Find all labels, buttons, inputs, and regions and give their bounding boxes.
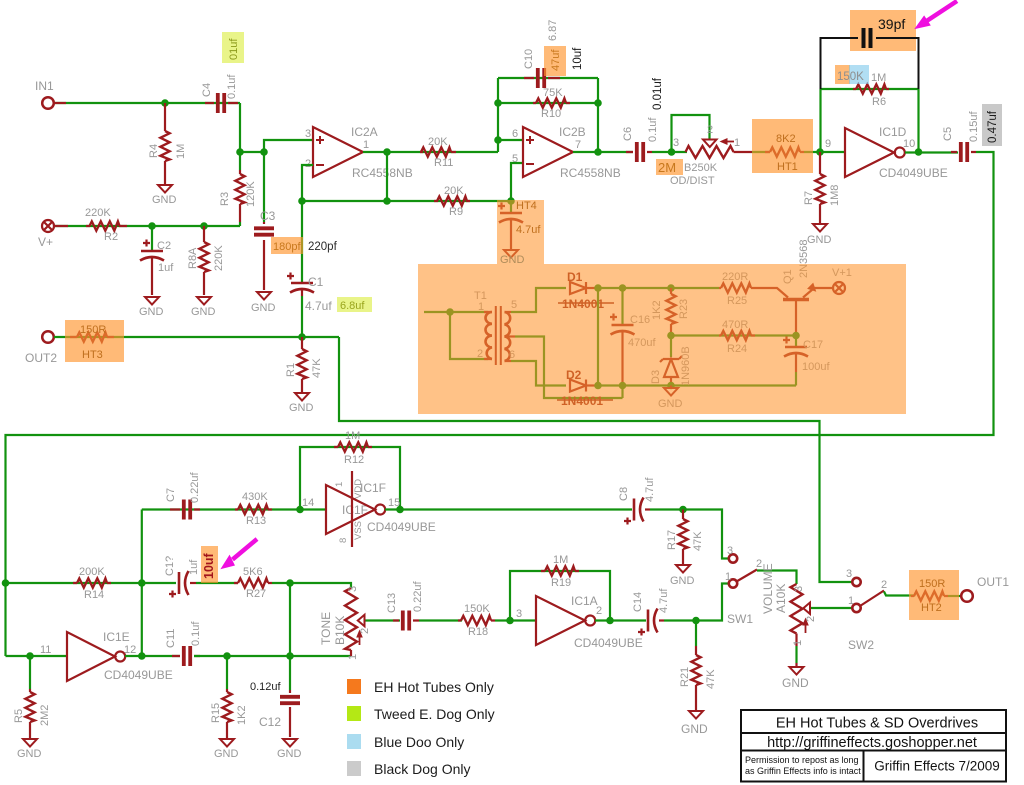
node junction D1 cathode	[594, 284, 602, 292]
svg-text:4.7uf: 4.7uf	[305, 299, 332, 313]
wire IC2A minus input	[302, 165, 313, 282]
transformer T1	[484, 306, 515, 365]
svg-text:150K: 150K	[464, 603, 490, 615]
wire pin6 stub	[498, 139, 523, 141]
svg-text:10: 10	[903, 138, 915, 150]
svg-text:GND: GND	[152, 194, 177, 206]
node junction C1x left	[138, 579, 146, 587]
svg-text:8: 8	[338, 538, 349, 543]
wire down to C11 rail	[289, 583, 291, 656]
svg-text:5K6: 5K6	[243, 566, 263, 578]
svg-text:R21: R21	[679, 667, 691, 687]
svg-text:8K2: 8K2	[776, 133, 796, 145]
wire zero rail	[598, 384, 796, 386]
resistor R24 470R	[719, 334, 755, 336]
svg-text:CD4049UBE: CD4049UBE	[367, 520, 436, 534]
node junction pin3	[260, 148, 268, 156]
wire IC2A output	[363, 151, 498, 153]
highlight box 39pf	[850, 10, 916, 51]
svg-text:HT2: HT2	[921, 602, 942, 614]
svg-text:1: 1	[725, 571, 731, 583]
svg-text:C6: C6	[622, 127, 634, 141]
svg-text:R27: R27	[246, 588, 266, 600]
svg-text:11: 11	[40, 644, 51, 656]
resistor R9 20K	[434, 200, 470, 202]
capacitor C6 0.1uf	[626, 151, 652, 153]
svg-text:HT1: HT1	[777, 161, 798, 173]
ground below R17	[676, 565, 690, 573]
svg-text:2: 2	[805, 616, 817, 622]
inverter IC1E	[67, 632, 115, 681]
capacitor C1 4.7uf	[301, 282, 303, 283]
svg-text:150K: 150K	[837, 71, 864, 83]
svg-text:2M2: 2M2	[39, 705, 51, 726]
resistor R25 220R	[719, 287, 755, 289]
svg-text:1K2: 1K2	[236, 705, 248, 725]
svg-text:as Griffin Effects info is int: as Griffin Effects info is intact	[745, 766, 861, 776]
node junction IC2A out	[383, 148, 391, 156]
svg-text:EH Hot Tubes & SD Overdrives: EH Hot Tubes & SD Overdrives	[776, 716, 978, 732]
svg-text:1M: 1M	[175, 144, 187, 159]
svg-text:430K: 430K	[242, 491, 268, 503]
svg-text:0.01uf: 0.01uf	[652, 77, 664, 110]
svg-text:R6: R6	[872, 96, 886, 108]
svg-text:1: 1	[363, 139, 369, 151]
svg-text:OUT2: OUT2	[25, 351, 57, 365]
svg-text:R5: R5	[13, 709, 25, 723]
svg-text:R17: R17	[666, 530, 678, 550]
wire IC1D out	[905, 151, 958, 153]
legend swatch Blue Doo	[347, 734, 361, 749]
wire R12 loop	[300, 447, 400, 510]
svg-text:CD4049UBE: CD4049UBE	[574, 636, 643, 650]
svg-text:7: 7	[575, 139, 581, 151]
svg-text:6: 6	[512, 128, 518, 140]
svg-text:http://griffineffects.goshoppe: http://griffineffects.goshopper.net	[767, 735, 977, 751]
svg-text:GND: GND	[251, 302, 276, 314]
resistor R3 120K	[239, 170, 241, 222]
node junction R14 left	[2, 579, 10, 587]
svg-text:HT3: HT3	[82, 349, 103, 361]
wire R14 rail	[6, 582, 142, 584]
wire IC1E out	[125, 655, 180, 657]
wire HT2 to OUT1	[948, 595, 961, 597]
node junction R21 top	[692, 617, 700, 625]
node junction fb left	[298, 197, 306, 205]
svg-text:220K: 220K	[213, 245, 225, 271]
svg-text:R2: R2	[104, 231, 118, 243]
svg-text:C7: C7	[165, 488, 177, 502]
wire C17 to zero rail	[795, 372, 797, 386]
node junction R23 bottom	[667, 332, 675, 340]
node junction R1 top	[298, 333, 306, 341]
svg-text:150R: 150R	[919, 578, 945, 590]
wire IC1F out to C8	[385, 508, 632, 510]
wire C6 to pot	[652, 151, 687, 153]
svg-text:0.1uf: 0.1uf	[226, 74, 238, 99]
op-amp IC2B	[523, 127, 573, 177]
svg-text:9: 9	[825, 138, 831, 150]
svg-text:C4: C4	[201, 83, 213, 97]
node junction IC1D out	[915, 148, 923, 156]
resistor R12 1M	[334, 446, 372, 448]
resistor R8A 220K	[203, 226, 205, 295]
svg-text:C8: C8	[618, 487, 630, 501]
svg-text:10uf: 10uf	[572, 47, 584, 70]
svg-text:1M: 1M	[871, 72, 886, 84]
zener diode D3	[670, 336, 672, 358]
svg-text:47uf: 47uf	[550, 49, 562, 71]
capacitor C4 0.1uf	[205, 102, 238, 104]
node junction D2 cathode	[594, 382, 602, 390]
wire right side of fb loop	[597, 78, 599, 152]
svg-text:R11: R11	[434, 157, 453, 169]
capacitor C11 0.1uf	[172, 655, 200, 657]
ground below R4	[158, 185, 172, 193]
svg-text:1M: 1M	[553, 554, 568, 566]
wire R10	[498, 102, 598, 104]
capacitor C7 0.22uf	[170, 508, 200, 510]
svg-text:3: 3	[793, 586, 805, 592]
svg-text:VSS: VSS	[353, 521, 364, 540]
svg-text:1M: 1M	[345, 430, 360, 442]
ground below R5	[23, 739, 37, 747]
wire R9 to pin5	[511, 163, 523, 201]
wire to R27	[196, 582, 238, 584]
svg-text:180pf: 180pf	[273, 241, 301, 253]
legend swatch Tweed E Dog	[347, 706, 361, 721]
svg-text:C12: C12	[259, 715, 281, 729]
highlight box 150R HT2	[909, 570, 959, 620]
svg-text:C1: C1	[308, 275, 324, 289]
svg-text:R3: R3	[219, 192, 231, 206]
svg-text:IC1F: IC1F	[360, 481, 386, 495]
node junction IN1/R4	[161, 99, 169, 107]
wire C16 to mid tap line	[621, 386, 623, 399]
svg-text:GND: GND	[139, 306, 164, 318]
node junction C16 top	[619, 284, 627, 292]
ground below C3	[257, 292, 271, 300]
op-amp IC2A	[313, 127, 363, 177]
svg-text:GND: GND	[807, 234, 832, 246]
node junction C16 bottom	[619, 382, 627, 390]
wire C1x rail	[142, 582, 176, 584]
svg-text:3: 3	[846, 568, 852, 580]
wire D1 to D2 vertical	[597, 288, 599, 386]
title block	[741, 710, 1006, 782]
ground below R7	[813, 224, 827, 232]
node junction R27 right	[286, 579, 294, 587]
svg-text:220K: 220K	[85, 207, 111, 219]
capacitor 39pf black	[821, 28, 919, 89]
highlight box 150R HT3	[65, 320, 124, 362]
resistor R18 150K	[458, 619, 495, 621]
resistor R23 1K2	[670, 288, 672, 333]
wire feedback down	[386, 152, 388, 201]
highlight box 01uf yellow	[222, 32, 244, 63]
highlight box 150K blue part	[849, 65, 869, 84]
capacitor C10 47uf	[524, 77, 560, 79]
svg-text:OUT1: OUT1	[977, 575, 1009, 589]
legend swatch EH Hot Tubes	[347, 679, 361, 694]
svg-text:5: 5	[512, 153, 518, 165]
resistor R1 47K	[301, 337, 303, 392]
capacitor C8 4.7uf	[634, 498, 644, 522]
capacitor C3 220pf	[263, 222, 265, 290]
highlight box 10uf	[201, 546, 218, 583]
terminal IN1	[42, 97, 54, 109]
capacitor C16 470uf	[621, 288, 623, 324]
svg-text:10uf: 10uf	[202, 552, 216, 579]
wire R19 loop	[510, 571, 610, 621]
wire B+ rail	[598, 287, 719, 289]
inverter IC1A	[536, 596, 585, 645]
wire SW1 pin2 to VOLUME	[757, 571, 797, 585]
svg-text:C13: C13	[386, 593, 398, 613]
ground below R21	[689, 711, 703, 719]
wire SW2 pin2 to OUT1	[884, 592, 915, 596]
wire R3 bottom to V+ rail	[239, 222, 241, 226]
svg-text:C11: C11	[165, 629, 177, 648]
svg-text:GND: GND	[214, 748, 239, 760]
wire R11 up to IC2B network	[497, 78, 499, 152]
node junction pin3 IC1A	[506, 617, 514, 625]
svg-text:6.8uf: 6.8uf	[340, 300, 365, 312]
svg-text:GND: GND	[670, 575, 695, 587]
wire OUT2 to SW2 net	[339, 337, 852, 582]
wire C14 to SW1 pin1	[664, 584, 729, 621]
wire T1 primary stub	[424, 311, 488, 313]
svg-text:3: 3	[305, 128, 311, 140]
svg-text:C5: C5	[942, 127, 954, 141]
highlight box 180pf	[271, 237, 303, 254]
node junction R10 right	[594, 99, 602, 107]
resistor R11 20K	[420, 151, 456, 153]
resistor R27 5K6	[234, 582, 272, 584]
resistor R17 47K	[682, 510, 684, 565]
svg-text:A10K: A10K	[774, 584, 788, 613]
svg-text:GND: GND	[681, 722, 708, 736]
svg-text:R14: R14	[84, 589, 104, 601]
wire secondary top to D1	[511, 288, 566, 312]
svg-text:C2: C2	[157, 240, 171, 252]
node junction IC1D in	[816, 148, 824, 156]
svg-text:R8A: R8A	[187, 247, 199, 269]
ground below D3	[670, 386, 672, 389]
svg-text:4.7uf: 4.7uf	[644, 477, 656, 502]
resistor R19 1M	[541, 570, 579, 572]
svg-text:TONE: TONE	[319, 612, 333, 645]
wire feedback rail y201	[302, 200, 511, 202]
wire V+ rail	[55, 225, 240, 227]
svg-text:1: 1	[347, 654, 359, 660]
svg-text:V+: V+	[38, 235, 53, 249]
wire C10 top	[498, 77, 598, 79]
terminal V+1	[833, 282, 845, 294]
svg-text:R1: R1	[285, 363, 297, 377]
resistor R14 200K	[73, 582, 111, 584]
potentiometer OD/DIST B250K	[686, 138, 753, 158]
terminal OUT1	[961, 590, 973, 602]
node junction R15	[223, 652, 231, 660]
svg-text:6.87: 6.87	[547, 20, 559, 41]
ground below R8A	[197, 297, 211, 305]
svg-text:47K: 47K	[692, 531, 704, 551]
svg-text:C14: C14	[632, 592, 644, 612]
wire pot bypass pin2	[672, 115, 710, 152]
svg-text:2: 2	[881, 579, 887, 591]
node junction pot pin3	[668, 148, 676, 156]
svg-text:Black Dog Only: Black Dog Only	[374, 761, 470, 777]
svg-text:C10: C10	[523, 49, 535, 69]
node junction R5	[26, 652, 34, 660]
wire R6 right vertical	[917, 89, 919, 152]
capacitor HT4 4.7uf	[510, 201, 512, 212]
svg-text:GND: GND	[500, 254, 525, 266]
node junction C2	[148, 222, 156, 230]
svg-text:IN1: IN1	[35, 79, 54, 93]
capacitor C12 0.12uf	[289, 656, 291, 690]
wire C7 rail	[142, 508, 326, 510]
diode D2 1N4001	[570, 380, 586, 392]
node junction pin14	[296, 506, 304, 514]
node junction HT4	[507, 197, 515, 205]
diode D1 1N4001	[570, 282, 586, 294]
svg-text:4.7uf: 4.7uf	[658, 588, 670, 613]
svg-text:120K: 120K	[245, 181, 257, 207]
svg-text:39pf: 39pf	[878, 16, 905, 32]
svg-text:SW2: SW2	[848, 638, 874, 652]
terminal V+	[42, 220, 54, 232]
resistor R6 1M	[853, 88, 889, 90]
wire secondary mid tap down	[515, 337, 623, 399]
svg-text:150R: 150R	[80, 324, 106, 336]
capacitor C14 4.7uf	[648, 609, 658, 633]
node junction T1 primary	[446, 308, 454, 316]
ground below R15	[220, 739, 234, 747]
svg-text:RC4558NB: RC4558NB	[560, 166, 621, 180]
wire R27 to TONE	[272, 583, 351, 588]
svg-text:VOLUME: VOLUME	[761, 563, 775, 614]
svg-text:CD4049UBE: CD4049UBE	[104, 668, 173, 682]
wire TONE wiper to C13	[366, 619, 401, 621]
svg-text:75K: 75K	[543, 87, 563, 99]
svg-text:Blue Doo Only: Blue Doo Only	[374, 734, 464, 750]
svg-text:0.47uf: 0.47uf	[987, 110, 999, 143]
highlight box 0.47uf gray	[982, 104, 1002, 146]
node junction R8A	[200, 222, 208, 230]
resistor R7 1M8	[819, 152, 821, 223]
svg-text:R19: R19	[551, 577, 571, 589]
svg-text:47K: 47K	[311, 358, 323, 378]
inverter IC1D	[845, 128, 894, 177]
svg-text:GND: GND	[289, 402, 314, 414]
svg-text:3: 3	[347, 586, 359, 592]
node junction pin15	[396, 506, 404, 514]
svg-text:R9: R9	[449, 206, 463, 218]
node junction fb mid	[383, 197, 391, 205]
highlight power-supply box	[418, 200, 906, 414]
wire R6 rail	[821, 88, 919, 90]
capacitor C2 1uf	[151, 226, 153, 250]
svg-text:3: 3	[673, 137, 679, 149]
wire IC1E input rail	[6, 655, 68, 657]
legend swatch Black Dog	[347, 761, 361, 776]
node junction IC1E out	[138, 652, 146, 660]
ground below C2	[145, 297, 159, 305]
svg-text:200K: 200K	[79, 566, 105, 578]
resistor R21 47K	[695, 621, 697, 647]
wire C8 to SW1	[650, 510, 729, 559]
ground below VOLUME	[795, 646, 797, 663]
svg-text:Griffin Effects 7/2009: Griffin Effects 7/2009	[874, 759, 1000, 774]
wire C13 to R18	[419, 619, 462, 621]
svg-text:14: 14	[302, 497, 314, 509]
node junction Q1 emitter / C17	[792, 332, 800, 340]
svg-text:B250K: B250K	[684, 162, 718, 174]
resistor R15 1K2	[226, 689, 228, 738]
svg-text:R4: R4	[148, 144, 160, 158]
wire OUT2 rail	[54, 336, 339, 338]
wire pot to HT1	[752, 151, 770, 153]
svg-text:GND: GND	[277, 748, 302, 760]
svg-text:47K: 47K	[705, 669, 717, 689]
svg-text:GND: GND	[191, 306, 216, 318]
highlight box 8K2 HT1	[752, 119, 813, 173]
wire to IC2A plus input	[240, 140, 313, 152]
svg-text:R18: R18	[468, 626, 488, 638]
svg-text:0.12uf: 0.12uf	[250, 681, 282, 693]
wire VOLUME wiper to SW2	[811, 607, 852, 609]
resistor R4 1M	[164, 103, 166, 184]
resistor HT3 150R	[70, 336, 114, 338]
svg-text:0.22uf: 0.22uf	[189, 471, 201, 503]
ground below HT4	[504, 250, 518, 258]
resistor R2 220K	[55, 225, 127, 227]
wire IC1A out	[595, 619, 646, 621]
svg-text:0.1uf: 0.1uf	[647, 117, 659, 142]
svg-text:R12: R12	[344, 454, 364, 466]
svg-text:2: 2	[359, 628, 371, 634]
svg-text:1: 1	[734, 137, 740, 149]
svg-text:4.7uf: 4.7uf	[516, 224, 541, 236]
transistor Q1 2N3568	[755, 284, 832, 335]
svg-text:1: 1	[792, 640, 804, 646]
wire IC2B output to C6	[573, 151, 633, 153]
svg-text:12: 12	[124, 644, 136, 656]
svg-text:IC1A: IC1A	[571, 594, 598, 608]
terminal OUT2	[42, 331, 54, 343]
svg-text:2M: 2M	[658, 160, 676, 175]
svg-text:1uf: 1uf	[188, 559, 200, 575]
node junction IC2B out	[594, 148, 602, 156]
wire C3 branch down	[263, 152, 265, 222]
node junction C4/R3/opamp	[236, 148, 244, 156]
svg-text:GND: GND	[782, 676, 809, 690]
resistor R13 430K	[235, 508, 272, 510]
highlight box 47uf	[544, 46, 566, 76]
wire R18 to IC1A	[495, 619, 536, 621]
svg-text:1: 1	[848, 595, 854, 607]
svg-text:C3: C3	[260, 209, 276, 223]
svg-text:20K: 20K	[444, 185, 464, 197]
wire C1 to OUT2 rail	[301, 296, 303, 337]
node junction D3 bottom	[667, 382, 675, 390]
node junction R10 left	[494, 99, 502, 107]
wire C7 branch vertical	[141, 510, 143, 657]
node junction IC1A out	[606, 617, 614, 625]
svg-text:0.1uf: 0.1uf	[190, 621, 202, 646]
